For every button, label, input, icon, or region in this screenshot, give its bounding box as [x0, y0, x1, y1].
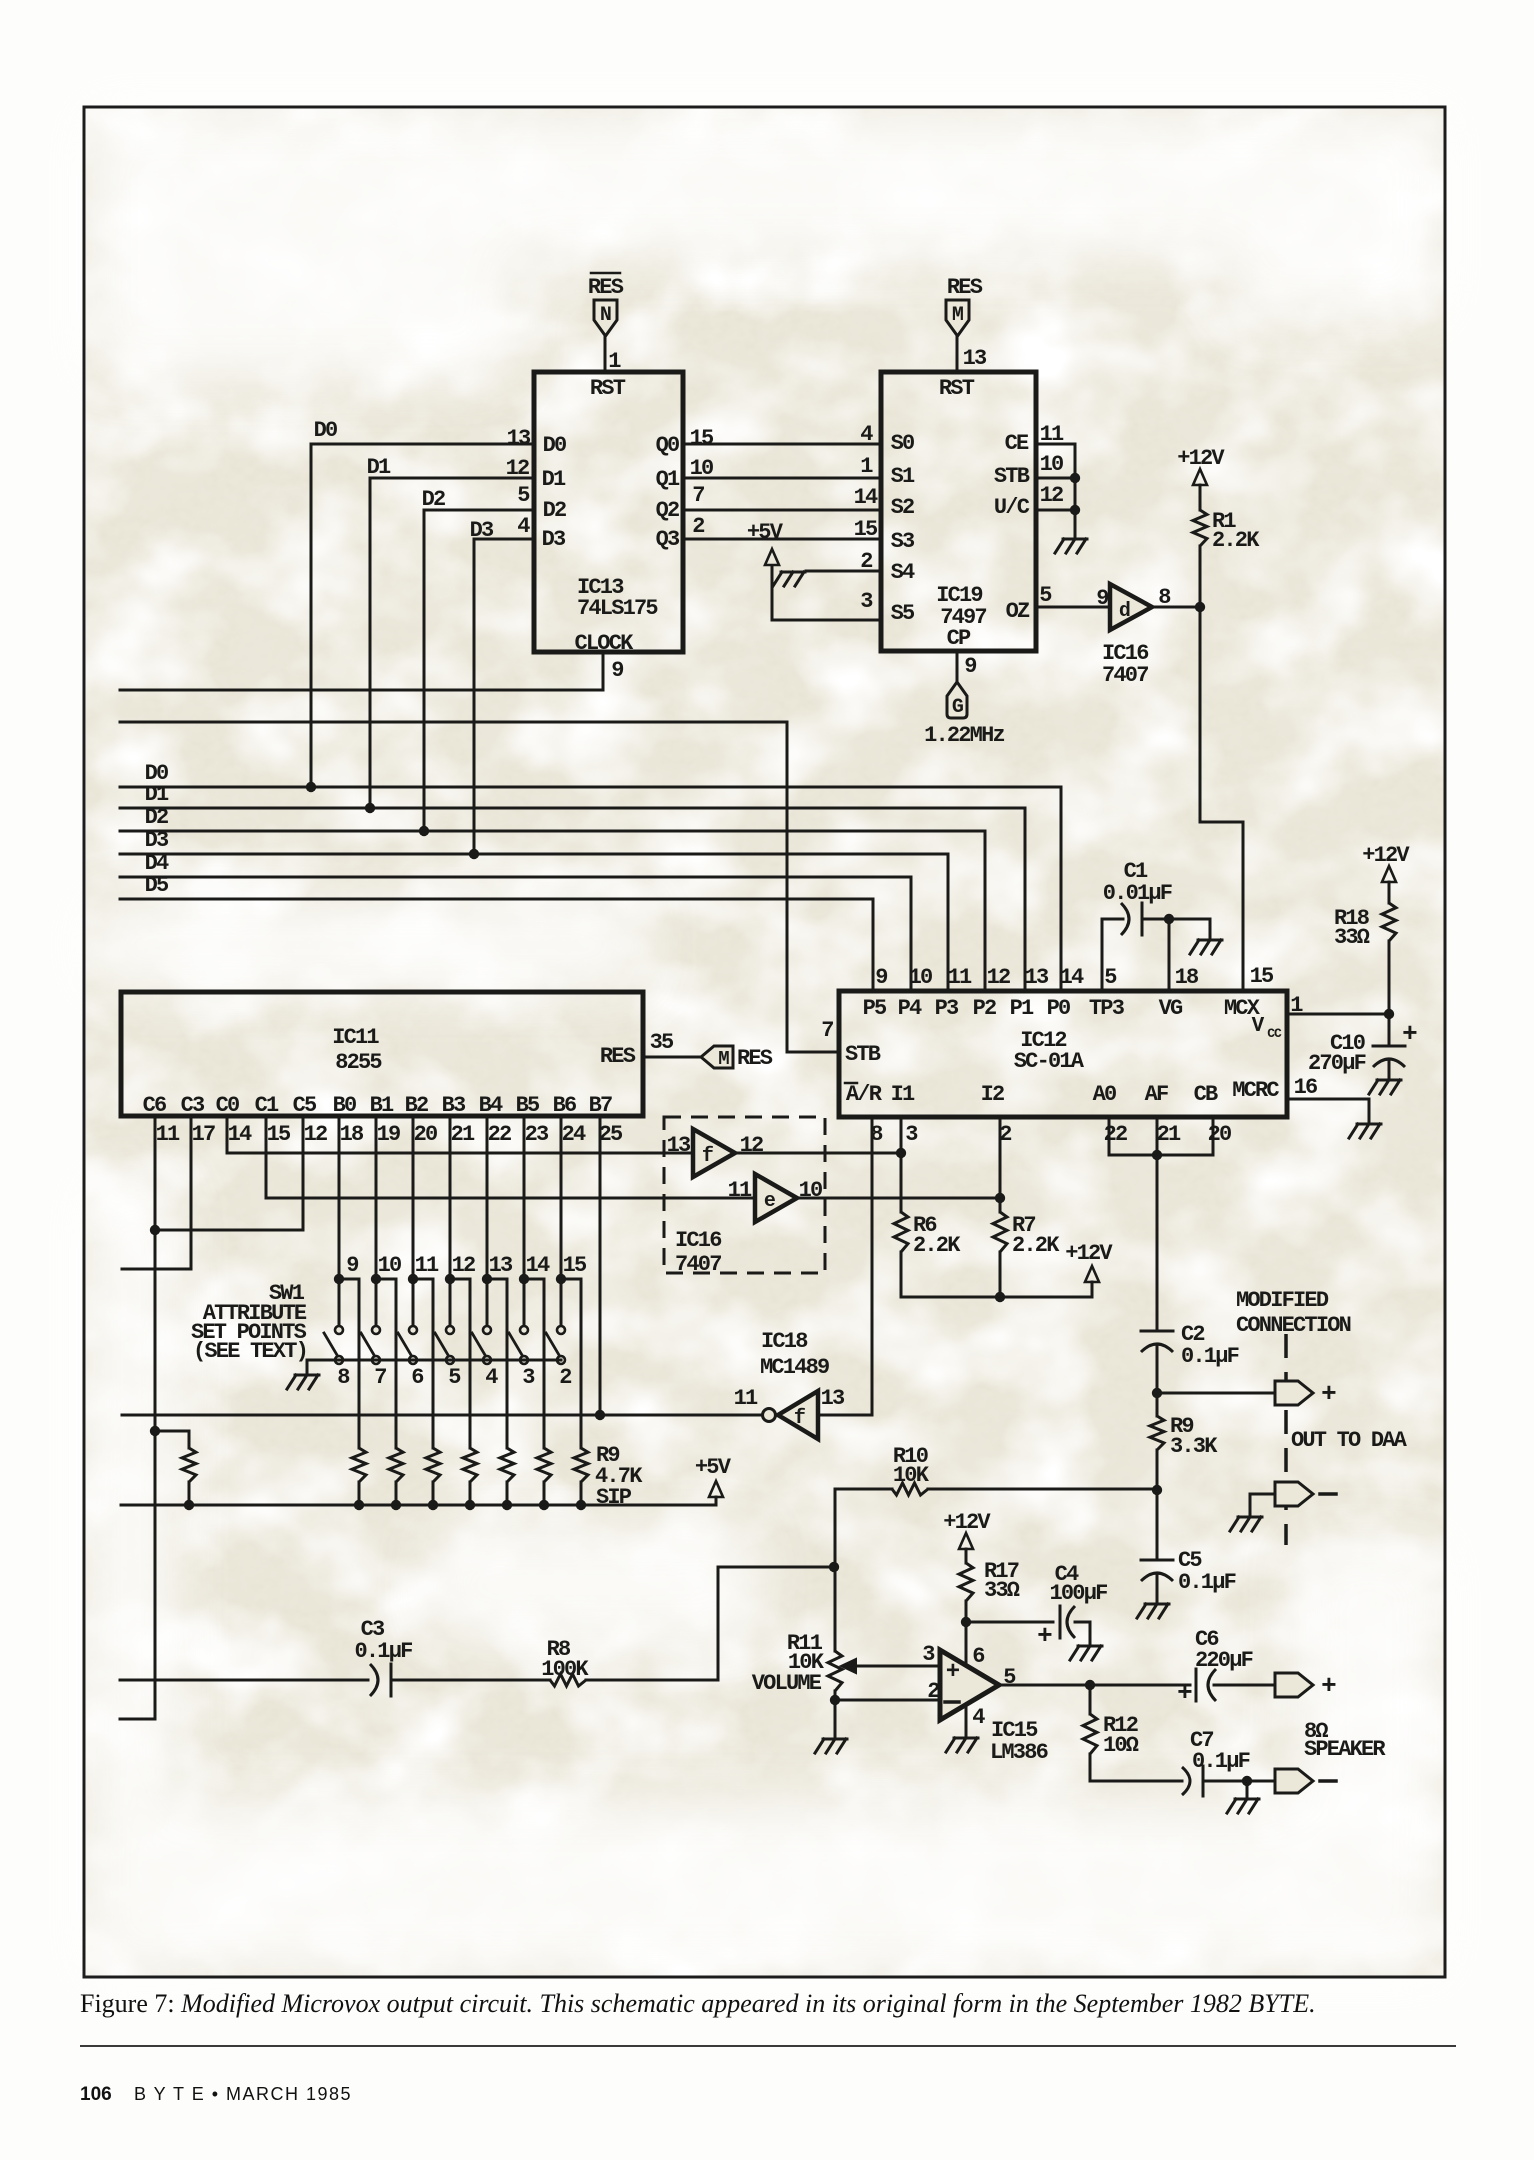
svg-text:B3: B3 [442, 1093, 466, 1118]
svg-text:2: 2 [692, 514, 704, 539]
svg-text:U/C: U/C [994, 495, 1030, 520]
pin 9 label [611, 658, 623, 683]
resistor R9 SIP element 7 [574, 1448, 588, 1482]
svg-text:OUT TO DAA: OUT TO DAA [1291, 1428, 1408, 1453]
pin 15 label [267, 1122, 291, 1147]
svg-text:1.22MHz: 1.22MHz [924, 723, 1004, 748]
switch SW1-3 [509, 1326, 535, 1390]
connector speaker plus [1275, 1671, 1336, 1701]
wire D3 bus [120, 854, 948, 990]
capacitor C5 0.1uF [1141, 1548, 1236, 1595]
dashed separation line [1284, 1334, 1288, 1545]
wire SIP element to +5V rail [395, 1482, 398, 1505]
junction I1/f output [896, 1148, 906, 1158]
junction U/C [1070, 505, 1080, 515]
junction DAA plus node [1152, 1388, 1162, 1398]
pin 8 label [870, 1122, 883, 1147]
wire IC12 pin 8 A/R to IC18 output [871, 1117, 874, 1415]
wire STB pin 10 [1036, 477, 1075, 480]
node D5 bus label [145, 873, 169, 898]
pin 12 label [304, 1122, 327, 1147]
pin 12 label [452, 1253, 475, 1278]
ground at R11 [815, 1739, 847, 1753]
junction AF node [1152, 1150, 1162, 1160]
junction B2 branch [408, 1274, 418, 1284]
svg-text:0.01μF: 0.01μF [1103, 881, 1172, 906]
wire IC11 B6 to switch 2 [560, 1116, 563, 1325]
svg-text:C5: C5 [293, 1093, 317, 1118]
pin 7 label [692, 483, 704, 508]
svg-text:MCRC: MCRC [1232, 1078, 1279, 1103]
wire D2 to IC13 pin 5 [424, 510, 534, 831]
svg-text:11: 11 [415, 1253, 439, 1278]
junction C5/C6 [150, 1225, 160, 1235]
wire R10 node column [834, 1489, 837, 1651]
svg-text:CONNECTION: CONNECTION [1236, 1313, 1351, 1338]
label MODIFIED CONNECTION [1236, 1288, 1351, 1338]
svg-text:S5: S5 [891, 601, 915, 626]
junction Vcc node [1384, 1009, 1394, 1019]
svg-text:13: 13 [667, 1133, 691, 1158]
wire IC12 pin 22 A0 [1108, 1117, 1111, 1155]
svg-text:11: 11 [1040, 422, 1064, 447]
svg-text:13: 13 [507, 426, 531, 451]
svg-text:RES: RES [600, 1044, 636, 1069]
pin 17 label [192, 1122, 215, 1147]
svg-text:RES: RES [737, 1046, 773, 1071]
junction B5 branch [519, 1274, 529, 1284]
wire DAA minus to ground [1250, 1494, 1275, 1515]
pin 13 label [963, 346, 987, 371]
svg-text:+: + [1177, 1678, 1192, 1708]
svg-text:S4: S4 [891, 560, 915, 585]
wire switch common [307, 1360, 561, 1373]
svg-text:RES: RES [947, 275, 983, 300]
pin 1 label [860, 454, 873, 479]
wire node to C5 [1156, 1490, 1159, 1560]
capacitor C3 0.1uF [354, 1617, 412, 1696]
wire C7 to speaker minus [1203, 1780, 1275, 1783]
svg-text:4: 4 [517, 514, 530, 539]
svg-text:15: 15 [563, 1253, 587, 1278]
svg-text:SPEAKER: SPEAKER [1304, 1737, 1386, 1762]
node D2 bus label [145, 805, 168, 830]
pin 10 label [1040, 452, 1063, 477]
svg-text:22: 22 [1104, 1122, 1127, 1147]
svg-text:5: 5 [517, 483, 530, 508]
wire B0 branch to SIP resistor [339, 1279, 359, 1448]
pin 13 label [821, 1386, 845, 1411]
ground at SW1 common [287, 1375, 319, 1389]
+5V supply at IC19 S5 [747, 520, 784, 565]
inverter IC18f MC1489 [763, 1391, 819, 1439]
pin 9 label [964, 654, 976, 679]
switch SW1-5 [435, 1326, 461, 1390]
svg-text:10: 10 [378, 1253, 401, 1278]
switch SW1-6 [398, 1326, 423, 1390]
pin 13 label [1025, 965, 1049, 990]
svg-text:+12V: +12V [1065, 1241, 1113, 1266]
pin 20 label [414, 1122, 437, 1147]
junction SIP/+5V rail [465, 1500, 475, 1510]
capacitor C7 0.1uF [1182, 1728, 1250, 1796]
svg-text:+: + [1321, 1379, 1336, 1409]
IC IC16 7407 dashed outline [664, 1117, 825, 1277]
svg-text:13: 13 [489, 1253, 513, 1278]
wire SIP element to +5V rail [432, 1482, 435, 1505]
svg-text:0.1μF: 0.1μF [1178, 1570, 1236, 1595]
pin 21 label [1157, 1122, 1181, 1147]
ground at C4 [1070, 1646, 1102, 1660]
wire IC12 Vcc pin 1 [1287, 1013, 1389, 1016]
svg-text:9: 9 [611, 658, 623, 683]
svg-text:18: 18 [340, 1122, 364, 1147]
wire DAA plus node to connector [1157, 1392, 1275, 1395]
svg-text:+: + [1321, 1671, 1336, 1701]
svg-text:106: 106 [80, 2084, 112, 2105]
junction SIP/+5V rail [576, 1500, 586, 1510]
svg-text:P2: P2 [973, 996, 996, 1021]
pin 16 label [1294, 1075, 1317, 1100]
connector speaker minus [1275, 1769, 1336, 1793]
wire IC11 B1 to switch 7 [375, 1116, 378, 1325]
switch SW1-7 [361, 1326, 386, 1390]
capacitor C4 100uF [1037, 1562, 1107, 1651]
pin 14 label [526, 1253, 550, 1278]
pin 12 label [740, 1133, 763, 1158]
svg-text:100μF: 100μF [1049, 1581, 1107, 1606]
wire B1 branch to SIP resistor [376, 1279, 396, 1448]
svg-text:M: M [952, 304, 964, 327]
svg-text:B Y T E • MARCH 1985: B Y T E • MARCH 1985 [134, 2084, 352, 2104]
svg-text:18: 18 [1175, 965, 1199, 990]
wire D0 to IC13 pin 13 [311, 444, 534, 787]
svg-text:8: 8 [870, 1122, 883, 1147]
svg-text:11: 11 [948, 965, 972, 990]
svg-text:S3: S3 [891, 529, 915, 554]
wire CE pin 11 [1036, 443, 1075, 446]
svg-text:2: 2 [927, 1679, 939, 1704]
pin 6 label [972, 1644, 984, 1669]
pin 2 label [860, 549, 872, 574]
svg-text:f: f [794, 1407, 805, 1430]
pin 8 label [1158, 585, 1171, 610]
junction output node [1085, 1680, 1095, 1690]
svg-text:10K: 10K [893, 1463, 930, 1488]
label 1.22MHz [924, 723, 1004, 748]
pin 19 label [377, 1122, 400, 1147]
svg-text:S0: S0 [891, 431, 914, 456]
svg-text:B5: B5 [516, 1093, 540, 1118]
svg-text:N: N [600, 304, 611, 327]
wire D5 bus [120, 899, 873, 990]
resistor R9 SIP element 5 [500, 1448, 514, 1482]
pin 14 label [228, 1122, 252, 1147]
pin 13 label [667, 1133, 691, 1158]
pin 2 label [692, 514, 704, 539]
svg-text:19: 19 [377, 1122, 400, 1147]
svg-text:AF: AF [1145, 1082, 1168, 1107]
svg-text:B6: B6 [553, 1093, 576, 1118]
pin 1 label [608, 349, 621, 374]
wire +5V rail [121, 1497, 716, 1505]
wire R18 to Vcc node [1388, 941, 1391, 1014]
svg-text:MC1489: MC1489 [760, 1355, 829, 1380]
wire D0 bus [120, 787, 1061, 990]
wire Q0-S0 [683, 443, 881, 446]
svg-text:22: 22 [488, 1122, 511, 1147]
pin 23 label [525, 1122, 549, 1147]
capacitor C1 0.01uF [1103, 859, 1172, 935]
svg-text:D2: D2 [145, 805, 168, 830]
label 8 ohm SPEAKER [1304, 1719, 1386, 1762]
capacitor C6 220uF [1177, 1627, 1253, 1708]
wire D2 bus [120, 831, 985, 990]
wire IC12 MCRC pin 16 to ground [1287, 1099, 1369, 1122]
pin 12 label [506, 456, 529, 481]
svg-text:8255: 8255 [335, 1050, 382, 1075]
wire IC11 pin 15 C1 to buffer e input [266, 1116, 755, 1198]
resistor R9 SIP element 1 [352, 1448, 366, 1482]
svg-text:3: 3 [860, 589, 873, 614]
buffer IC16f 7407 [693, 1129, 735, 1177]
node D1 label at IC13 [367, 455, 391, 480]
resistor R9 SIP element 6 [537, 1448, 551, 1482]
svg-text:+12V: +12V [1177, 446, 1225, 471]
wire C1 to VG node [1142, 918, 1169, 921]
node D0 label at IC13 [314, 418, 337, 443]
wire IC11 RES pin 35 [643, 1056, 700, 1059]
junction speaker minus node [1242, 1776, 1252, 1786]
pin 7 label [821, 1018, 833, 1043]
wire IC12 pin 2 I2 [999, 1117, 1002, 1212]
wire IC18 output to IC12 pin 8 [818, 1414, 872, 1417]
pin 14 label [1060, 965, 1084, 990]
svg-text:7: 7 [692, 483, 704, 508]
resistor R12 10ohm [1083, 1713, 1139, 1758]
svg-text:20: 20 [414, 1122, 437, 1147]
resistor R6 2.2K [894, 1212, 961, 1258]
pin 4 label [860, 422, 873, 447]
svg-text:P5: P5 [863, 996, 887, 1021]
wire C6 branch to SIP resistor [155, 1431, 189, 1448]
svg-text:21: 21 [1157, 1122, 1181, 1147]
node D3 label at IC13 [470, 518, 494, 543]
svg-text:P1: P1 [1010, 996, 1034, 1021]
svg-text:1: 1 [860, 454, 873, 479]
pin 3 label [905, 1122, 918, 1147]
pin 1 label [1290, 993, 1303, 1018]
svg-text:14: 14 [1060, 965, 1084, 990]
junction I2/e output [995, 1193, 1005, 1203]
pin 18 label [1175, 965, 1199, 990]
junction C6/SIP [150, 1426, 160, 1436]
pin 15 label [1250, 964, 1274, 989]
svg-text:7: 7 [374, 1365, 386, 1390]
pin 11 label [1040, 422, 1064, 447]
wire C3 to R8 [391, 1679, 550, 1682]
resistor R8 100K [541, 1637, 589, 1686]
ground at IC15 pin 4 [946, 1738, 978, 1752]
wire to ground [1246, 1781, 1249, 1797]
svg-text:B0: B0 [333, 1093, 356, 1118]
svg-text:MODIFIED: MODIFIED [1236, 1288, 1329, 1313]
svg-text:1: 1 [1290, 993, 1303, 1018]
svg-text:12: 12 [304, 1122, 327, 1147]
svg-text:P4: P4 [898, 996, 922, 1021]
wire buffer d output to R1 node [1152, 606, 1200, 609]
wire IC19 S5 stub [772, 567, 881, 620]
pin 4 label [972, 1705, 985, 1730]
svg-text:Figure 7: Modified Microvox ou: Figure 7: Modified Microvox output circu… [80, 1989, 1316, 2018]
wire SIP element to +5V rail [543, 1482, 546, 1505]
wire pot to ground [834, 1691, 837, 1737]
label OUT TO DAA [1291, 1428, 1408, 1453]
wire audio input stub [120, 1679, 368, 1682]
switch SW1-8 [324, 1326, 350, 1390]
svg-text:+: + [1402, 1019, 1417, 1049]
wire 8255 STB line to IC12 pin 7 [120, 722, 839, 1052]
junction R1/OZ node [1195, 602, 1205, 612]
svg-text:B4: B4 [479, 1093, 503, 1118]
pin 11 label [728, 1178, 752, 1203]
svg-text:10: 10 [1040, 452, 1063, 477]
ground at IC19 S4 [773, 572, 805, 586]
svg-text:IC18: IC18 [761, 1329, 808, 1354]
wire D1 to IC13 pin 12 [370, 478, 534, 808]
svg-text:3: 3 [905, 1122, 918, 1147]
capacitor C2 0.1uF [1141, 1322, 1239, 1369]
ground at MCRC [1349, 1124, 1381, 1138]
svg-text:5: 5 [448, 1365, 461, 1390]
wire pot bottom to op-amp minus [835, 1699, 940, 1702]
+12V supply at R1 [1177, 446, 1225, 485]
label R9 4.7K SIP [595, 1443, 643, 1510]
IC IC19 7497 box [881, 372, 1036, 651]
junction D0 [306, 782, 316, 792]
svg-text:A0: A0 [1093, 1082, 1116, 1107]
buffer IC16d 7407 [1110, 584, 1152, 630]
svg-text:4: 4 [860, 422, 873, 447]
svg-text:G: G [952, 696, 964, 719]
pin 11 label [156, 1122, 180, 1147]
wire IC11 B0 to switch 8 [338, 1116, 341, 1325]
svg-text:33Ω: 33Ω [1334, 925, 1370, 950]
resistor R9 SIP element 2 [389, 1448, 403, 1482]
+5V supply at SIP rail [695, 1455, 732, 1497]
junction D1 [365, 803, 375, 813]
node D1 bus label [145, 782, 169, 807]
wire C10 to ground [1388, 1060, 1391, 1078]
wire B5 branch to SIP resistor [524, 1279, 544, 1448]
svg-text:OZ: OZ [1006, 599, 1030, 624]
wire IC13 pin 1 from flag N [604, 336, 607, 372]
svg-text:D1: D1 [367, 455, 391, 480]
svg-text:15: 15 [267, 1122, 291, 1147]
svg-text:(SEE TEXT): (SEE TEXT) [193, 1339, 307, 1364]
svg-text:C1: C1 [255, 1093, 279, 1118]
pin 9 label [346, 1253, 358, 1278]
svg-text:4: 4 [485, 1365, 498, 1390]
svg-text:14: 14 [526, 1253, 550, 1278]
svg-text:35: 35 [650, 1030, 674, 1055]
pin 2 label [927, 1679, 939, 1704]
IC IC11 8255 box [121, 992, 643, 1118]
wire IC13 clock pin 9 to left edge [120, 652, 603, 690]
wire SIP element to +5V rail [358, 1482, 361, 1505]
wire IC11 B3 to switch 5 [449, 1116, 452, 1325]
junction B1 branch [371, 1274, 381, 1284]
switch SW1-2 [546, 1326, 571, 1390]
junction B3 branch [445, 1274, 455, 1284]
svg-text:D3: D3 [145, 828, 169, 853]
pin 24 label [562, 1122, 586, 1147]
svg-text:0.1μF: 0.1μF [354, 1639, 412, 1664]
svg-text:M: M [718, 1048, 729, 1070]
wire IC11 B4 to switch 4 [486, 1116, 489, 1325]
svg-text:15: 15 [854, 517, 878, 542]
svg-text:CC: CC [1267, 1026, 1282, 1041]
pin 11 label [734, 1386, 758, 1411]
junction pin6/C4 [961, 1617, 971, 1627]
wire Q1-S1 [683, 477, 881, 480]
svg-text:13: 13 [821, 1386, 845, 1411]
buffer IC16e 7407 [755, 1174, 797, 1222]
svg-text:D2: D2 [543, 498, 566, 523]
junction SIP/+5V rail [502, 1500, 512, 1510]
junction B4 branch [482, 1274, 492, 1284]
potentiometer R11 10K VOLUME [752, 1631, 940, 1696]
wire Q2-S2 [683, 509, 881, 512]
svg-text:9: 9 [964, 654, 976, 679]
wire +12V to R18 [1388, 882, 1391, 903]
pin 2 label [999, 1122, 1011, 1147]
junction D3 [469, 849, 479, 859]
footer rule [80, 2045, 1456, 2047]
pin 5 label [1039, 583, 1052, 608]
svg-text:4: 4 [972, 1705, 985, 1730]
wire B7 pin 25 to IC18 input [122, 1116, 762, 1415]
pin 11 label [948, 965, 972, 990]
svg-text:8: 8 [337, 1365, 350, 1390]
connector flag G (1.22MHz clock) [947, 682, 967, 719]
svg-text:15: 15 [690, 426, 714, 451]
junction SIP/+5V rail [391, 1500, 401, 1510]
svg-text:C6: C6 [143, 1093, 166, 1118]
wire D4 bus [120, 877, 911, 990]
svg-text:STB: STB [845, 1042, 881, 1067]
ground at C10 [1369, 1080, 1401, 1094]
wire B4 branch to SIP resistor [487, 1279, 507, 1448]
connector flag M (RES to IC19 pin 13) [946, 275, 983, 336]
svg-text:A/R: A/R [846, 1082, 883, 1107]
wire R10 line [835, 1488, 1157, 1491]
svg-text:I1: I1 [891, 1082, 915, 1107]
wire IC19 S4 stub [806, 570, 881, 573]
svg-text:Q2: Q2 [656, 498, 679, 523]
svg-text:2: 2 [999, 1122, 1011, 1147]
svg-text:14: 14 [854, 485, 878, 510]
pin 10 label [378, 1253, 401, 1278]
wire A0-AF-CB common [1109, 1154, 1213, 1157]
wire output to R12 [1089, 1685, 1092, 1714]
svg-text:21: 21 [451, 1122, 475, 1147]
wire IC19 pin 13 from flag M [956, 336, 959, 372]
svg-text:15: 15 [1250, 964, 1274, 989]
wire R7 bottom [999, 1252, 1002, 1297]
wire IC11 pin 17 C3 [122, 1116, 191, 1269]
svg-text:C3: C3 [181, 1093, 205, 1118]
